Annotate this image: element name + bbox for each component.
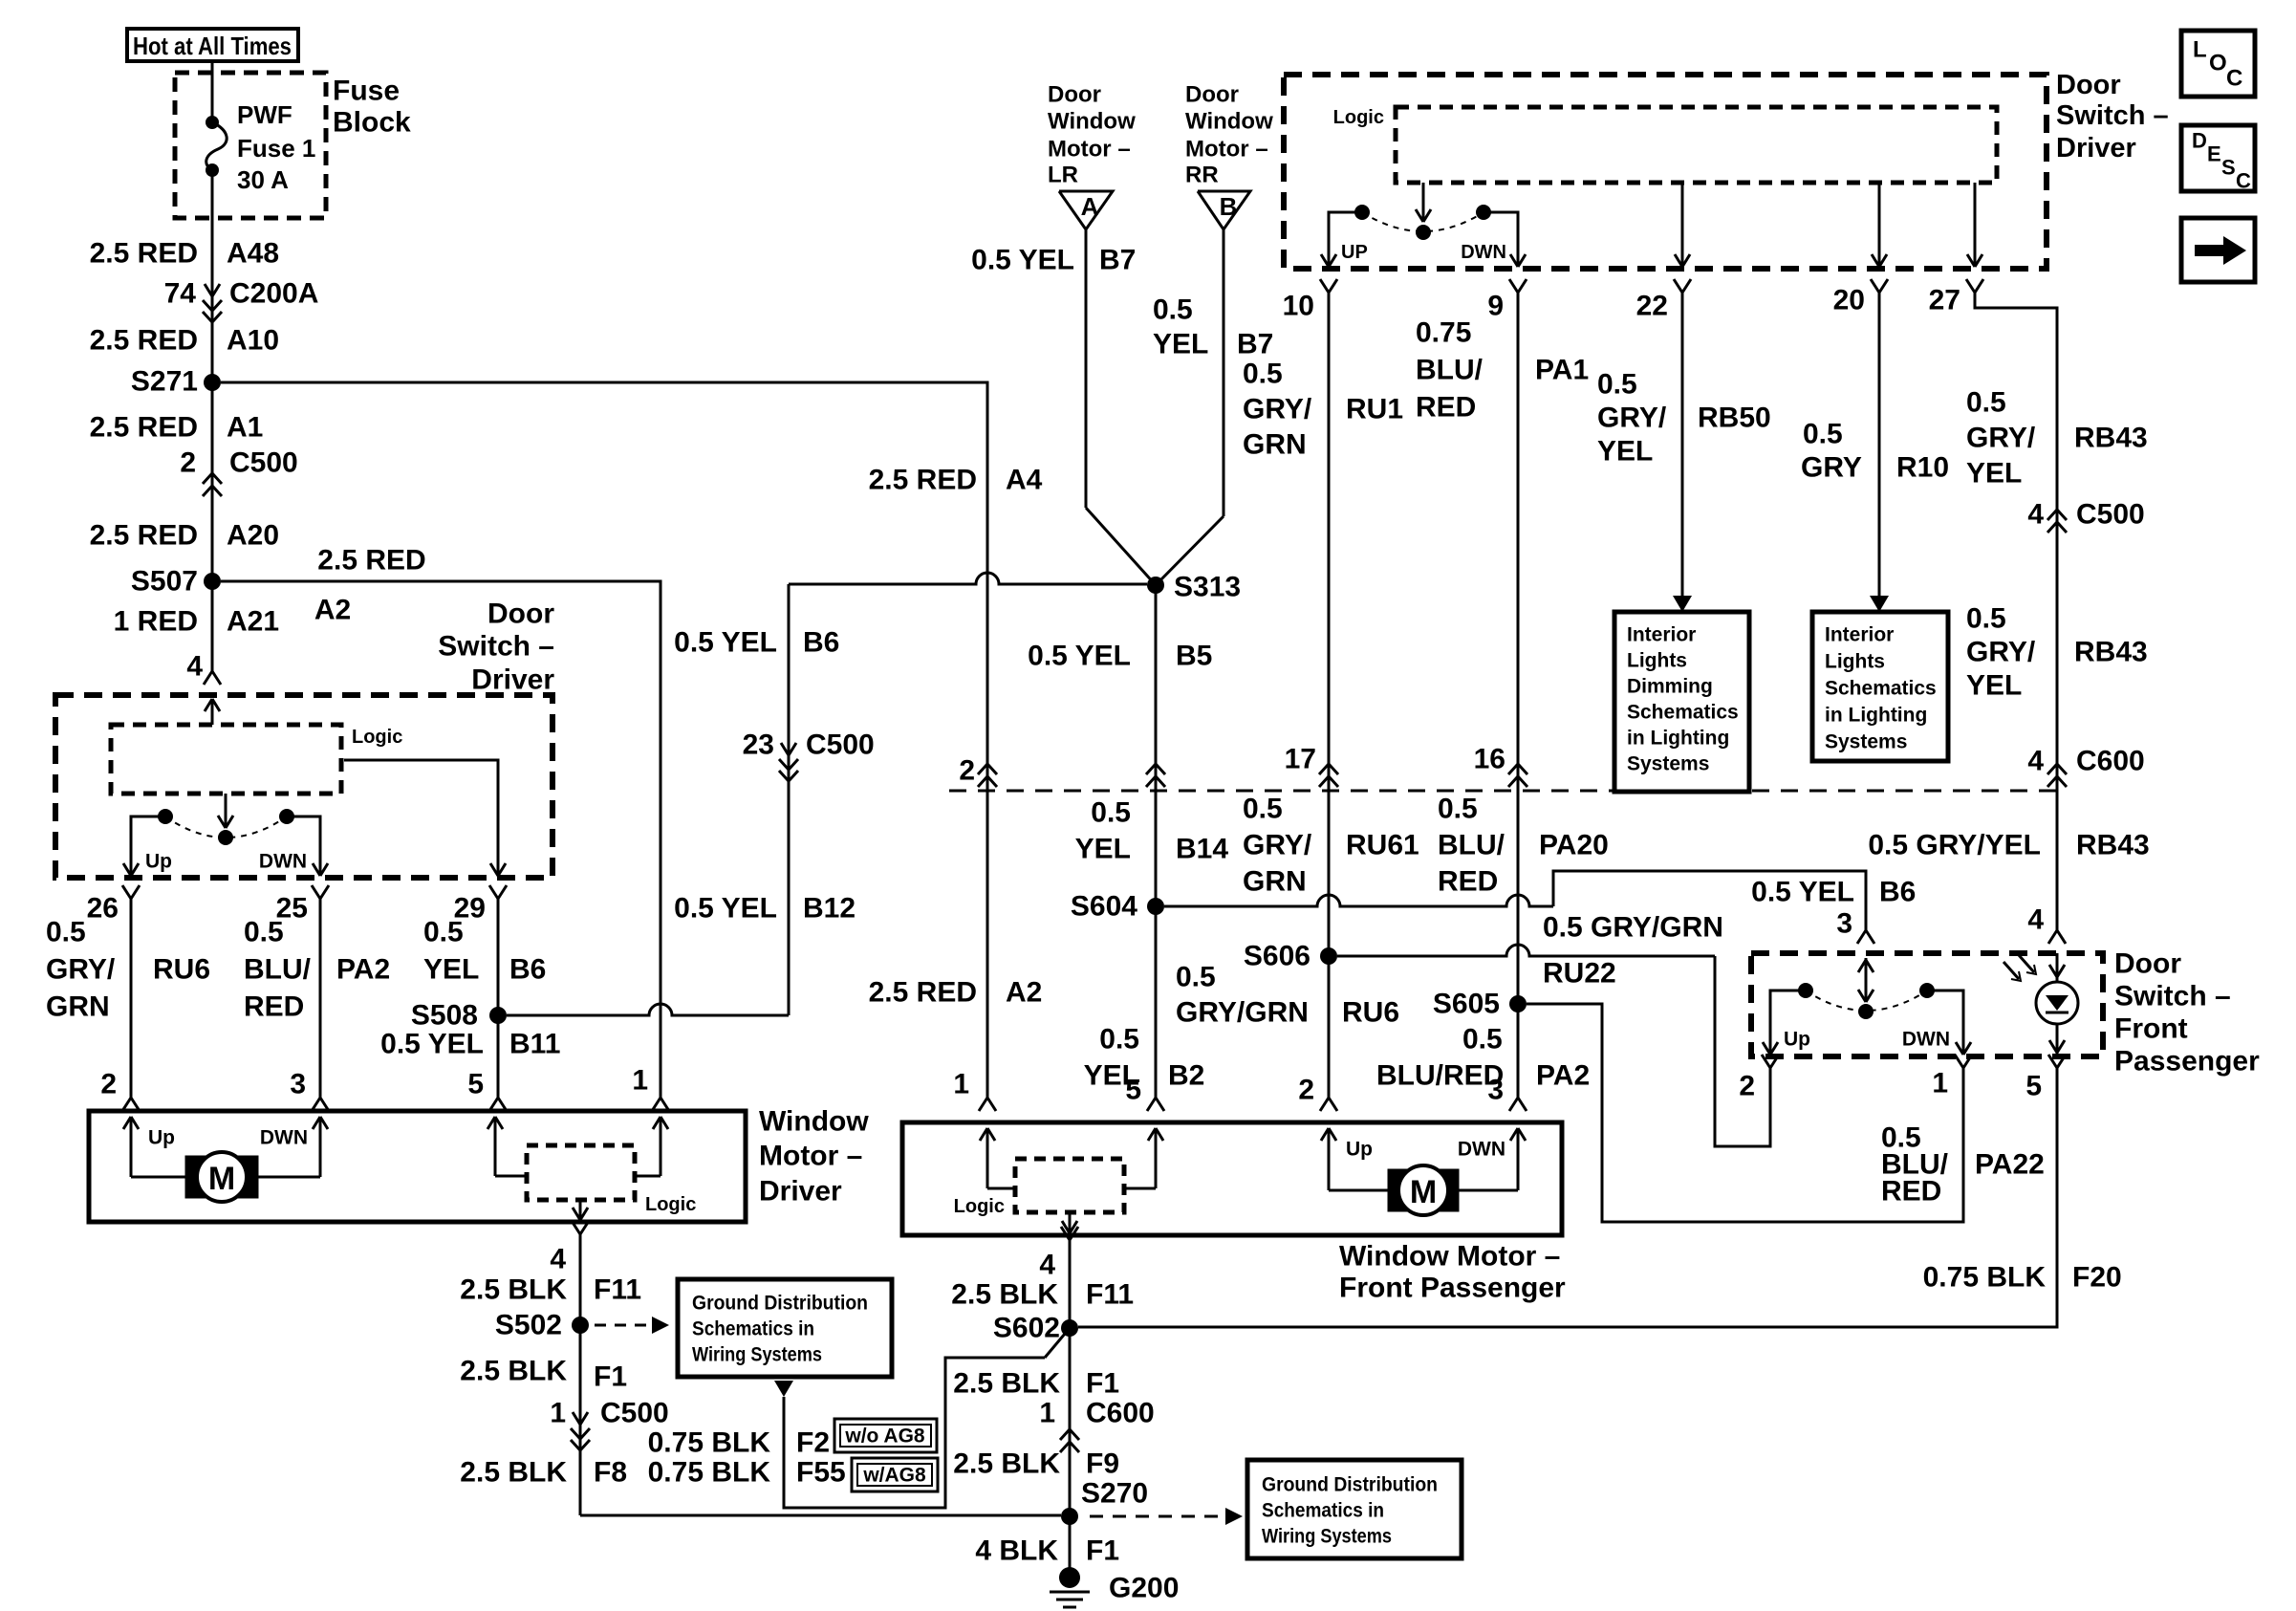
splice S271 <box>131 366 221 398</box>
wire RB43 0.5 GRY/YEL <box>1966 293 2148 930</box>
svg-text:Door: Door <box>1048 82 1101 108</box>
svg-text:3: 3 <box>1487 1075 1504 1106</box>
connector C500 (B5 wire) <box>1146 764 1165 787</box>
svg-text:RB43: RB43 <box>2076 830 2150 861</box>
label 4 BLK F1 <box>975 1535 1119 1567</box>
svg-text:B14: B14 <box>1176 834 1228 865</box>
svg-text:2.5 RED: 2.5 RED <box>869 977 977 1009</box>
svg-text:B: B <box>1220 192 1238 221</box>
svg-text:Lights: Lights <box>1627 650 1687 672</box>
svg-text:20: 20 <box>1833 285 1865 316</box>
svg-text:R10: R10 <box>1896 452 1949 484</box>
svg-text:BLU/RED: BLU/RED <box>1376 1060 1504 1092</box>
svg-text:Interior: Interior <box>1825 624 1894 646</box>
svg-text:YEL: YEL <box>423 954 479 986</box>
svg-text:0.5 YEL: 0.5 YEL <box>674 893 777 925</box>
svg-text:2: 2 <box>959 755 975 787</box>
wire motor A 0.5 YEL B7 <box>971 229 1156 585</box>
svg-text:Fuse 1: Fuse 1 <box>237 134 315 163</box>
tag w/o AG8 <box>834 1419 937 1452</box>
svg-text:0.5 YEL: 0.5 YEL <box>380 1029 484 1060</box>
svg-text:B6: B6 <box>1879 877 1916 908</box>
wire motor B 0.5 YEL B7 <box>1153 229 1273 585</box>
svg-text:2.5 BLK: 2.5 BLK <box>460 1457 567 1489</box>
label 0.5 YEL B14 <box>1075 797 1229 865</box>
svg-text:4: 4 <box>186 651 203 683</box>
svg-text:5: 5 <box>1125 1075 1141 1106</box>
svg-text:2.5 BLK: 2.5 BLK <box>460 1356 567 1387</box>
svg-text:C500: C500 <box>2076 499 2145 531</box>
splice S502 <box>495 1310 589 1341</box>
door switch FP pin 5 <box>2025 1055 2066 1102</box>
svg-text:0.5: 0.5 <box>1243 359 1283 390</box>
svg-text:Driver: Driver <box>759 1176 842 1208</box>
svg-text:DWN: DWN <box>259 851 307 873</box>
pin 9 fork <box>1487 279 1527 322</box>
wire RB50 0.5 GRY/YEL <box>1597 293 1771 612</box>
top box exit 27 <box>1967 183 1982 267</box>
svg-text:F1: F1 <box>594 1361 627 1393</box>
svg-text:Systems: Systems <box>1825 731 1907 753</box>
window motor driver pin 3 <box>290 1069 329 1112</box>
svg-text:Fuse: Fuse <box>333 76 400 107</box>
S502 reference arrow <box>595 1317 669 1334</box>
svg-text:Ground Distribution: Ground Distribution <box>1262 1474 1438 1496</box>
svg-text:2: 2 <box>180 447 196 479</box>
door switch FP pin 1 <box>1932 1055 1972 1099</box>
svg-text:PA1: PA1 <box>1535 355 1589 386</box>
pin 4 fork <box>204 671 221 685</box>
svg-text:D: D <box>2192 129 2207 153</box>
svg-text:0.5: 0.5 <box>244 917 284 948</box>
svg-text:16: 16 <box>1474 744 1505 775</box>
svg-text:Up: Up <box>148 1127 175 1149</box>
window motor driver pin 1 <box>632 1065 669 1112</box>
svg-text:26: 26 <box>87 893 119 925</box>
svg-text:GRY/: GRY/ <box>1243 830 1312 861</box>
svg-text:0.5: 0.5 <box>1243 794 1283 825</box>
pin 25 fork <box>276 885 329 925</box>
window motor FP pin 5 <box>1125 1075 1164 1112</box>
wire S508 to riser <box>507 1004 789 1015</box>
svg-text:Schematics: Schematics <box>1627 702 1739 724</box>
svg-text:0.5: 0.5 <box>1176 962 1216 993</box>
wire B12/B6 riser <box>674 584 856 1015</box>
connector C500 pin 16 <box>1474 744 1527 788</box>
svg-text:DWN: DWN <box>260 1127 308 1149</box>
svg-text:M: M <box>1410 1174 1437 1210</box>
svg-text:Motor –: Motor – <box>1048 137 1131 163</box>
svg-text:S313: S313 <box>1174 572 1241 603</box>
svg-text:Lights: Lights <box>1825 651 1885 673</box>
svg-text:F2: F2 <box>796 1427 830 1459</box>
FP switch contact arc <box>1806 991 1927 1011</box>
motor driver logic output <box>573 1200 588 1220</box>
svg-text:17: 17 <box>1285 744 1316 775</box>
top switch plunger <box>1416 183 1431 240</box>
S270 reference arrow <box>1090 1508 1243 1525</box>
svg-text:1: 1 <box>550 1398 566 1429</box>
label 0.75 BLK F55 <box>648 1457 846 1489</box>
svg-text:GRY/: GRY/ <box>1966 637 2036 668</box>
pin 26 fork <box>87 885 140 925</box>
door switch FP pin 2 <box>1739 1055 1779 1102</box>
svg-text:GRN: GRN <box>46 991 110 1023</box>
svg-text:Up: Up <box>145 851 172 873</box>
svg-text:in Lighting: in Lighting <box>1627 728 1729 750</box>
motor driver ground pin 4 <box>550 1221 589 1275</box>
wire R10 0.5 GRY <box>1801 293 1949 612</box>
svg-text:A20: A20 <box>227 520 279 552</box>
wire B6 top to S313 <box>789 573 1147 584</box>
svg-text:0.5 YEL: 0.5 YEL <box>971 245 1074 276</box>
wire RU6 0.5 GRY/GRN <box>46 912 210 1098</box>
label 1 RED A21 <box>114 606 279 638</box>
FP switch contact dwn <box>1902 983 1971 1055</box>
svg-text:0.75 BLK: 0.75 BLK <box>1923 1262 2047 1294</box>
svg-text:Logic: Logic <box>1333 107 1384 128</box>
svg-text:PWF: PWF <box>237 100 292 129</box>
label RB43 mid <box>1966 603 2148 702</box>
svg-text:GRN: GRN <box>1243 866 1307 898</box>
svg-text:Window: Window <box>1185 109 1273 135</box>
svg-text:DWN: DWN <box>1461 242 1506 263</box>
svg-text:M: M <box>208 1161 235 1197</box>
motor FP M motor <box>1388 1165 1459 1215</box>
svg-text:2: 2 <box>1298 1075 1314 1106</box>
svg-text:1: 1 <box>953 1069 969 1100</box>
top switch contact dwn <box>1461 205 1526 267</box>
window motor FP pin 2 <box>1298 1075 1337 1112</box>
splice S313 <box>1147 572 1241 603</box>
svg-text:0.5 GRY/YEL: 0.5 GRY/YEL <box>1868 830 2041 861</box>
svg-text:A48: A48 <box>227 238 279 270</box>
svg-text:2.5 BLK: 2.5 BLK <box>953 1368 1060 1400</box>
svg-text:S270: S270 <box>1081 1478 1148 1510</box>
svg-text:RB43: RB43 <box>2074 423 2148 454</box>
svg-text:4 BLK: 4 BLK <box>975 1535 1058 1567</box>
connector C500 pin 17 <box>1285 744 1338 788</box>
wire 2.5 RED A4 from S271 <box>221 382 1043 1098</box>
connector C600 pin 4 (RB43) <box>2027 746 2144 788</box>
motor FP logic lead 5 <box>1124 1128 1163 1188</box>
splice S606 <box>1244 941 1337 972</box>
svg-text:RU6: RU6 <box>1342 997 1399 1029</box>
svg-text:Ground Distribution: Ground Distribution <box>692 1293 868 1315</box>
svg-text:S602: S602 <box>993 1313 1060 1344</box>
svg-text:Passenger: Passenger <box>2114 1046 2260 1078</box>
splice S605 <box>1433 989 1527 1020</box>
svg-text:BLU/: BLU/ <box>1438 830 1505 861</box>
svg-text:Motor –: Motor – <box>1185 137 1268 163</box>
wire RU1 0.5 GRY/GRN <box>1243 293 1403 1098</box>
svg-text:Switch –: Switch – <box>438 631 554 663</box>
label 2.5 BLK F8 <box>460 1457 627 1489</box>
splice S604 <box>1071 891 1164 923</box>
svg-text:GRY/GRN: GRY/GRN <box>1176 997 1309 1029</box>
svg-text:1: 1 <box>1039 1398 1055 1429</box>
wire A48 2.5 RED <box>90 170 279 671</box>
svg-text:4: 4 <box>550 1244 566 1275</box>
door switch driver contact arc <box>165 816 287 838</box>
svg-text:BLU/: BLU/ <box>244 954 312 986</box>
wire 0.5 YEL B5 <box>1028 585 1212 1098</box>
svg-text:F1: F1 <box>1086 1535 1119 1567</box>
connector C500 pin 2 (A4 wire) <box>959 755 997 788</box>
svg-text:Logic: Logic <box>352 727 402 748</box>
ground G200 <box>1050 1567 1179 1607</box>
svg-text:0.75: 0.75 <box>1416 317 1471 349</box>
door switch driver logic tap <box>344 760 506 876</box>
svg-text:27: 27 <box>1929 285 1960 316</box>
svg-text:B7: B7 <box>1099 245 1136 276</box>
svg-text:B7: B7 <box>1237 329 1273 360</box>
svg-text:1: 1 <box>1932 1068 1948 1099</box>
svg-text:B6: B6 <box>509 954 546 986</box>
window motor FP pin 1 <box>953 1069 996 1112</box>
svg-text:Up: Up <box>1784 1029 1810 1051</box>
svg-text:3: 3 <box>290 1069 306 1100</box>
svg-text:PA2: PA2 <box>1536 1060 1590 1092</box>
next-page arrow box <box>2181 218 2255 282</box>
svg-text:UP: UP <box>1341 242 1368 263</box>
svg-text:Switch –: Switch – <box>2114 981 2231 1012</box>
svg-text:RED: RED <box>1416 392 1476 424</box>
svg-text:2.5 BLK: 2.5 BLK <box>951 1279 1058 1311</box>
svg-text:Door: Door <box>2114 948 2181 980</box>
motor driver logic lead 1 <box>635 1117 668 1176</box>
motor FP ground pin 4 <box>1039 1227 1078 1281</box>
interior lights schematics box <box>1812 612 1948 761</box>
label 2.5 RED A20 <box>90 520 279 552</box>
motor FP logic output <box>1062 1212 1077 1233</box>
wire to S270 <box>580 1514 1061 1517</box>
label 2.5 RED A1 <box>90 412 264 444</box>
svg-text:B5: B5 <box>1176 641 1212 672</box>
svg-text:Front: Front <box>2114 1013 2188 1045</box>
svg-text:2.5 RED: 2.5 RED <box>90 520 198 552</box>
label pin 4 <box>186 651 203 683</box>
svg-text:C: C <box>2226 66 2242 92</box>
connector C500 pin 2 <box>180 447 297 497</box>
svg-text:RU1: RU1 <box>1346 394 1403 425</box>
motor FP dwn lead <box>1458 1128 1526 1190</box>
label PA2 low <box>1376 1024 1590 1092</box>
svg-text:5: 5 <box>2025 1071 2042 1102</box>
fuse F1 PWF 30A <box>206 100 315 194</box>
svg-text:GRN: GRN <box>1243 429 1307 461</box>
svg-text:E: E <box>2207 142 2221 166</box>
wire 0.5 BLU/RED PA22 <box>1527 1004 2045 1222</box>
LOC key box <box>2181 31 2255 97</box>
tag w/AG8 <box>852 1458 938 1491</box>
door switch driver logic box <box>111 725 402 794</box>
motor FP logic box <box>954 1159 1124 1217</box>
svg-text:Driver: Driver <box>471 664 554 696</box>
svg-text:w/o AG8: w/o AG8 <box>844 1426 925 1448</box>
connector C600 pin 1 <box>1039 1398 1154 1453</box>
svg-text:Block: Block <box>333 107 411 139</box>
svg-text:C500: C500 <box>229 447 298 479</box>
FP switch plunger <box>1858 958 1874 1019</box>
pin 27 fork <box>1929 279 1983 316</box>
label 2.5 BLK F9 <box>953 1448 1119 1480</box>
svg-text:B6: B6 <box>803 627 839 659</box>
svg-text:B2: B2 <box>1168 1060 1204 1092</box>
DESC key box <box>2181 125 2255 193</box>
label 2.5 BLK F1 left <box>460 1356 627 1393</box>
door switch driver contact dwn <box>259 809 328 876</box>
svg-text:A10: A10 <box>227 325 279 357</box>
svg-text:2.5 BLK: 2.5 BLK <box>953 1448 1060 1480</box>
svg-text:Hot at All Times: Hot at All Times <box>133 32 292 60</box>
svg-text:GRY/: GRY/ <box>1966 423 2036 454</box>
motor driver M motor <box>185 1152 258 1202</box>
svg-text:2.5 RED: 2.5 RED <box>90 325 198 357</box>
pin 20 fork <box>1833 279 1888 316</box>
svg-text:Window: Window <box>759 1106 869 1138</box>
svg-text:Switch –: Switch – <box>2056 100 2169 131</box>
svg-text:0.75 BLK: 0.75 BLK <box>648 1457 771 1489</box>
door switch driver top logic box <box>1333 107 1997 183</box>
svg-text:GRY: GRY <box>1801 452 1862 484</box>
door switch driver contact up <box>123 809 173 876</box>
door switch FP pin 4 <box>2027 904 2066 945</box>
svg-text:2.5 RED: 2.5 RED <box>90 238 198 270</box>
label PA20 <box>1438 794 1609 898</box>
motor driver logic lead 5 <box>487 1117 527 1176</box>
svg-text:YEL: YEL <box>1597 436 1653 468</box>
svg-text:30 A: 30 A <box>237 165 289 194</box>
pin 22 fork <box>1636 279 1691 322</box>
svg-text:0.5: 0.5 <box>1099 1024 1139 1056</box>
svg-text:22: 22 <box>1636 291 1668 322</box>
svg-text:5: 5 <box>467 1069 484 1100</box>
svg-text:A2: A2 <box>1006 977 1042 1009</box>
motor driver dwn lead <box>258 1117 328 1177</box>
connector C500 pin 1 left <box>550 1398 668 1451</box>
label 0.75 BLK F2 <box>648 1427 830 1459</box>
wire 2.5 BLK F11 left <box>460 1248 641 1515</box>
wire 0.5 GRY/GRN RU22 <box>1337 912 1770 1147</box>
svg-text:A: A <box>1081 192 1099 221</box>
svg-text:O: O <box>2209 51 2227 76</box>
svg-text:RU61: RU61 <box>1346 830 1419 861</box>
door switch driver plunger <box>218 794 233 845</box>
door switch driver box <box>55 599 554 879</box>
svg-text:2.5 RED: 2.5 RED <box>90 412 198 444</box>
pin 29 fork <box>454 885 507 925</box>
svg-text:in Lighting: in Lighting <box>1825 705 1927 727</box>
svg-text:Up: Up <box>1346 1139 1373 1161</box>
wire 2.5 BLK F11 right <box>951 1253 1134 1570</box>
label RU6 low <box>1176 962 1399 1029</box>
label 2.5 RED A2 lower <box>869 977 1043 1009</box>
svg-text:10: 10 <box>1283 291 1314 322</box>
svg-text:Schematics in: Schematics in <box>692 1318 814 1340</box>
svg-text:0.5: 0.5 <box>1462 1024 1503 1056</box>
svg-text:0.5: 0.5 <box>1966 603 2006 635</box>
wire fuse input <box>211 63 214 122</box>
splice S508 <box>411 1000 507 1032</box>
svg-text:Window Motor –: Window Motor – <box>1339 1241 1560 1273</box>
svg-text:S502: S502 <box>495 1310 562 1341</box>
window motor FP box <box>902 1122 1566 1304</box>
svg-text:C600: C600 <box>1086 1398 1155 1429</box>
door window motor LR triangle <box>1048 82 1136 230</box>
wire PA2 0.5 BLU/RED <box>244 912 390 1098</box>
wire 0.5 YEL B6 branch to pin3 <box>1164 871 1916 930</box>
svg-text:w/AG8: w/AG8 <box>862 1465 926 1487</box>
svg-text:Wiring Systems: Wiring Systems <box>692 1344 822 1366</box>
svg-text:0.5: 0.5 <box>1438 794 1478 825</box>
wire 2.5 RED A2 from S507 <box>221 545 661 1099</box>
svg-text:0.5: 0.5 <box>423 917 464 948</box>
svg-text:LR: LR <box>1048 163 1078 188</box>
svg-text:S604: S604 <box>1071 891 1137 923</box>
svg-text:Window: Window <box>1048 109 1136 135</box>
svg-text:A1: A1 <box>227 412 263 444</box>
svg-text:RU6: RU6 <box>153 954 210 986</box>
FP switch contact up <box>1763 983 1813 1055</box>
top box exit 20 <box>1872 183 1887 267</box>
svg-text:2.5 BLK: 2.5 BLK <box>460 1274 567 1306</box>
svg-text:0.5 YEL: 0.5 YEL <box>674 627 777 659</box>
svg-text:RB43: RB43 <box>2074 637 2148 668</box>
svg-text:Front Passenger: Front Passenger <box>1339 1273 1566 1304</box>
svg-text:Door: Door <box>1185 82 1239 108</box>
svg-text:0.5: 0.5 <box>1966 387 2006 419</box>
top switch contact up <box>1321 205 1370 267</box>
top switch contact arc <box>1362 212 1484 231</box>
svg-text:S508: S508 <box>411 1000 478 1032</box>
svg-text:2.5 RED: 2.5 RED <box>317 545 425 577</box>
svg-text:C: C <box>2236 169 2251 193</box>
door window motor RR triangle <box>1185 82 1273 230</box>
svg-text:F55: F55 <box>796 1457 846 1489</box>
svg-text:4: 4 <box>2027 904 2044 936</box>
svg-text:F9: F9 <box>1086 1448 1119 1480</box>
svg-text:RB50: RB50 <box>1698 403 1771 434</box>
svg-text:0.5: 0.5 <box>46 917 86 948</box>
wire PA1 0.75 BLU/RED <box>1416 293 1589 1098</box>
svg-text:74: 74 <box>164 278 197 310</box>
svg-text:F20: F20 <box>2072 1262 2122 1294</box>
svg-text:23: 23 <box>743 729 774 761</box>
window motor FP pin 3 <box>1487 1075 1527 1112</box>
svg-text:L: L <box>2193 37 2207 63</box>
svg-text:F11: F11 <box>594 1274 641 1306</box>
svg-text:A4: A4 <box>1006 465 1043 496</box>
svg-text:0.5: 0.5 <box>1597 369 1637 401</box>
connector C500 pin 23 <box>743 729 875 782</box>
splice S602 <box>993 1313 1078 1344</box>
svg-text:YEL: YEL <box>1153 329 1208 360</box>
svg-text:Schematics in: Schematics in <box>1262 1500 1384 1522</box>
motor FP up lead <box>1321 1128 1388 1190</box>
svg-text:S507: S507 <box>131 566 198 598</box>
svg-text:F11: F11 <box>1086 1279 1134 1311</box>
svg-text:RED: RED <box>244 991 304 1023</box>
connector C200A pin 74 <box>164 278 319 323</box>
svg-text:S271: S271 <box>131 366 198 398</box>
svg-text:S605: S605 <box>1433 989 1500 1020</box>
svg-text:Dimming: Dimming <box>1627 676 1713 698</box>
wire F2/F55 to ground reference <box>774 1358 1045 1508</box>
svg-text:DWN: DWN <box>1458 1139 1505 1161</box>
svg-text:RED: RED <box>1881 1176 1941 1208</box>
svg-text:RED: RED <box>1438 866 1498 898</box>
